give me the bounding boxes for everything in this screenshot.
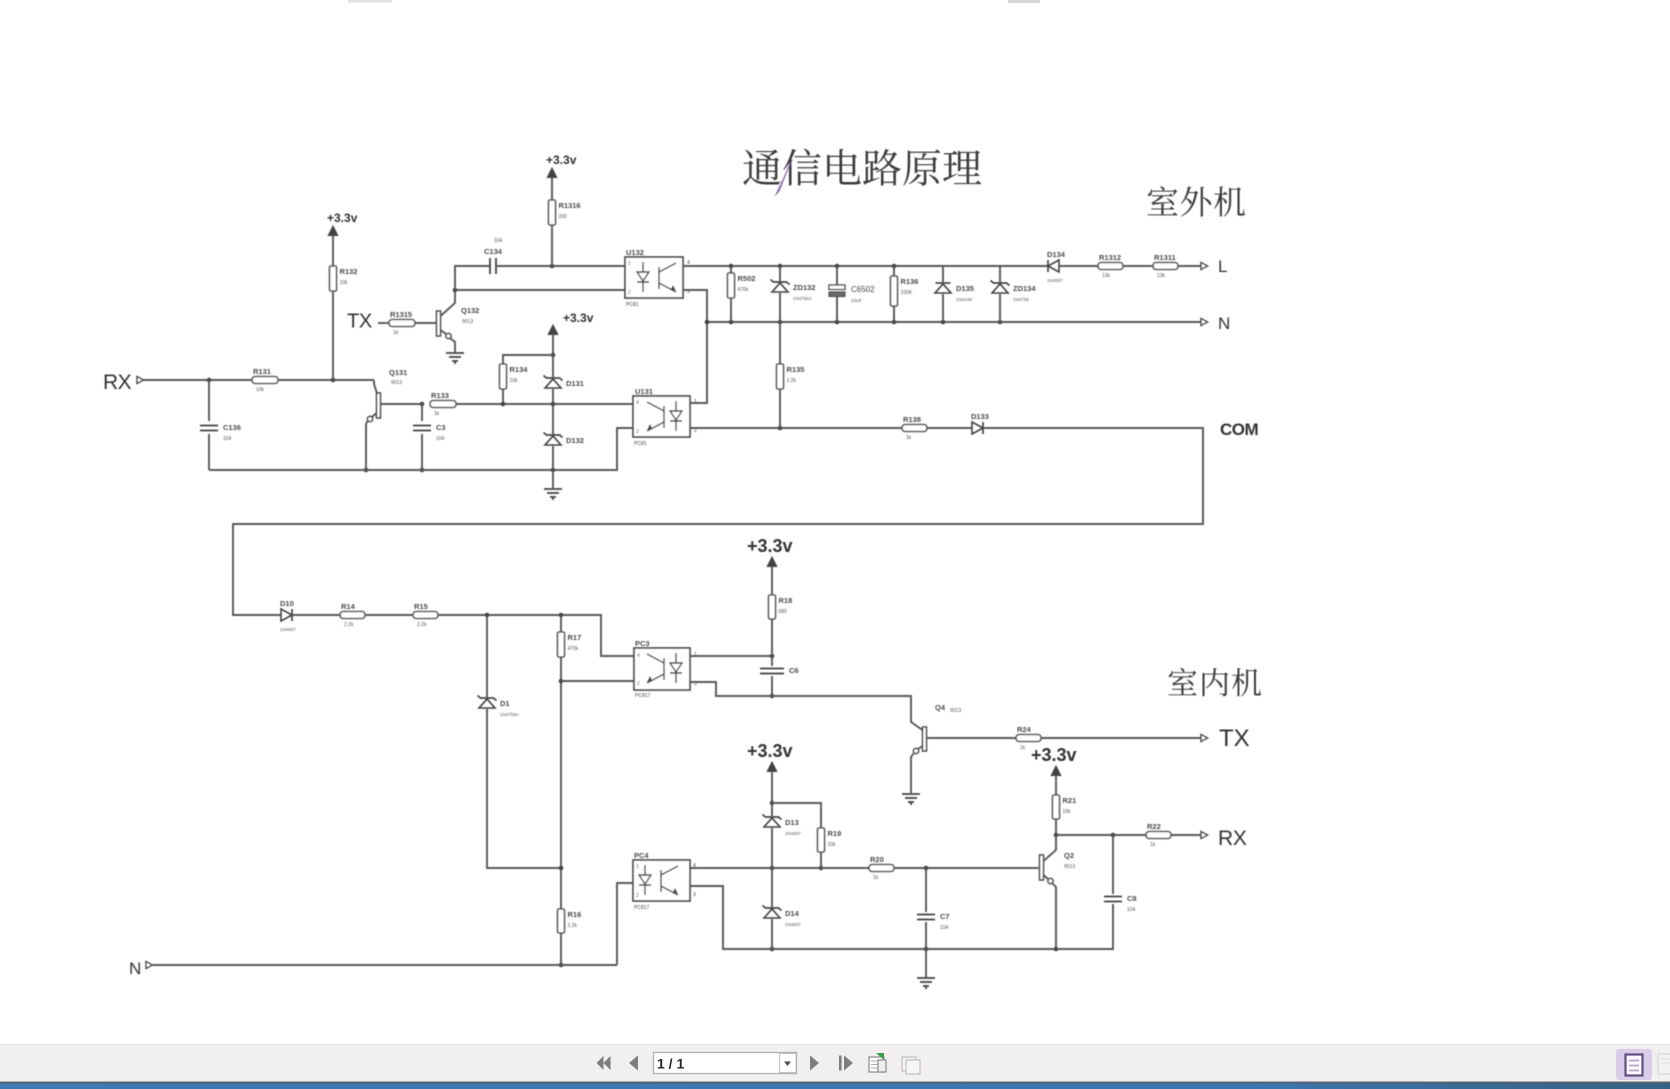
connector RX (137, 377, 144, 384)
svg-text:R17: R17 (568, 633, 582, 642)
wire bottom rail to U131 pin3 (209, 428, 633, 470)
svg-text:+3.3v: +3.3v (747, 536, 793, 556)
svg-text:D14: D14 (785, 909, 800, 918)
wire +3.3v to R18 (771, 566, 773, 595)
wire C136 to bottom rail (208, 434, 210, 470)
svg-text:1k: 1k (1150, 842, 1156, 848)
wire D131 down (552, 389, 554, 404)
connector RX (indoor) (1201, 832, 1208, 839)
resistor R22 (1146, 822, 1171, 848)
wire PC3 pin1 to C6 (690, 655, 772, 657)
wire R1316 down (551, 225, 553, 266)
node N bus x=780 (778, 320, 783, 325)
resistor R24 (1016, 725, 1041, 751)
svg-text:N: N (1218, 314, 1230, 333)
node L bus x=837 (835, 264, 840, 269)
ground (Q132) (446, 353, 464, 364)
svg-text:4: 4 (636, 400, 639, 406)
svg-text:Q131: Q131 (389, 368, 407, 377)
svg-text:1N4007: 1N4007 (1047, 278, 1063, 283)
svg-text:104: 104 (436, 436, 445, 442)
node N bus x=943 (941, 320, 946, 325)
secondary layout button (1658, 1054, 1670, 1074)
node N bus x=1000 (998, 320, 1003, 325)
svg-text:RX: RX (103, 371, 132, 394)
wire L bus (683, 265, 1048, 267)
svg-text:C3: C3 (436, 423, 446, 432)
wire R135 to COM line (779, 389, 781, 428)
resistor R133 (430, 391, 456, 417)
connector N (outdoor) (1201, 319, 1208, 326)
svg-text:1 / 1: 1 / 1 (657, 1056, 684, 1072)
node C3/bottom rail (420, 468, 425, 473)
wire R19 down (820, 852, 822, 868)
svg-text:2: 2 (637, 681, 640, 687)
node C7 top (924, 866, 929, 871)
zener diode ZD134 (991, 281, 1037, 303)
node R133/C3 (420, 402, 425, 407)
node D13/R19 (770, 801, 775, 806)
wire U132 pin3 / U131 pin1 (683, 290, 707, 403)
svg-text:2.2k: 2.2k (344, 622, 354, 628)
svg-text:2: 2 (628, 290, 631, 296)
capacitor C136 (200, 423, 241, 442)
svg-text:R131: R131 (253, 367, 271, 376)
svg-text:R1312: R1312 (1099, 253, 1121, 262)
power +3.3v (R1316) (546, 153, 577, 178)
svg-text:3: 3 (636, 429, 639, 435)
node R18/C6 (770, 654, 775, 659)
wire N bus to R135 (779, 322, 781, 364)
node R16 top (559, 866, 564, 871)
svg-text:1N4007: 1N4007 (785, 922, 801, 927)
svg-text:2.2k: 2.2k (568, 923, 578, 929)
toolbar snapshot icon (869, 1053, 886, 1072)
svg-text:13k: 13k (1102, 273, 1111, 279)
wire D13 down (771, 828, 773, 868)
wire PC4 pin2 elbow (617, 883, 633, 965)
resistor R132 (330, 266, 358, 291)
resistor R20 (869, 855, 894, 881)
node R21/RX line (1054, 833, 1059, 838)
wire to C136 (208, 380, 210, 421)
wire to D135 (942, 266, 944, 282)
resistor R136 (891, 276, 919, 306)
wire D14 down (771, 919, 773, 949)
Q132 emitter diagonal (441, 330, 447, 334)
svg-text:TX: TX (347, 311, 372, 333)
label label 室内机 (1168, 668, 1261, 697)
svg-text:C134: C134 (484, 247, 503, 256)
wire R16 to N line (560, 933, 562, 965)
wire RX to R131 (144, 379, 253, 381)
svg-text:PC817: PC817 (635, 693, 651, 699)
resistor R15 (413, 602, 438, 628)
wire Q131 emitter to bottom rail (366, 421, 368, 470)
wire +3.3v down (771, 771, 773, 803)
svg-text:C8: C8 (1127, 894, 1137, 903)
power +3.3v (R132) (327, 211, 358, 236)
svg-text:PC81: PC81 (626, 302, 639, 308)
wire R134 to R133 line (502, 389, 504, 404)
node L bus x=780 (778, 264, 783, 269)
wire PC4 pin4 line (690, 867, 869, 869)
resistor R17 (558, 632, 582, 657)
svg-text:C7: C7 (940, 912, 950, 921)
wire R22 to RX connector (1171, 834, 1201, 836)
ground (C7) (917, 978, 935, 989)
toolbar prev-page button (629, 1056, 638, 1071)
svg-text:R19: R19 (828, 829, 842, 838)
svg-text:104: 104 (1127, 907, 1136, 913)
wire +3.3v to R1316 (551, 177, 553, 200)
wire to D14 (771, 868, 773, 907)
transistor Q4 (923, 727, 927, 751)
node RX/C136 (207, 378, 212, 383)
svg-text:+3.3v: +3.3v (1031, 745, 1077, 765)
svg-text:1N4756: 1N4756 (1013, 297, 1029, 302)
svg-text:9013: 9013 (462, 319, 473, 325)
svg-text:2.2k: 2.2k (417, 622, 427, 628)
ground (RX stage) (544, 489, 562, 500)
svg-text:2.2k: 2.2k (787, 378, 797, 384)
svg-text:R14: R14 (341, 602, 356, 611)
node R135/COM line (778, 426, 783, 431)
wire N bus (707, 321, 1201, 323)
resistor R21 (1053, 795, 1077, 819)
zener diode D132 (544, 433, 584, 446)
node Q132 collector (453, 288, 458, 293)
Q132 collector wire (441, 290, 456, 316)
wire into Q131 base (374, 380, 378, 395)
svg-text:13k: 13k (1157, 273, 1166, 279)
wire R1312 to R1311 (1123, 265, 1153, 267)
wire Q4 emitter to ground (911, 754, 914, 794)
optocoupler PC4 (633, 851, 696, 911)
svg-text:200: 200 (559, 214, 568, 220)
svg-text:3: 3 (693, 892, 696, 898)
svg-text:2: 2 (636, 893, 639, 899)
wire R138 to D133 (927, 427, 972, 429)
wire to C3 (421, 404, 423, 421)
wire +3.3v to R132 (332, 235, 334, 266)
toolbar first-page button (597, 1056, 611, 1070)
wire to ground (552, 470, 554, 488)
wire PC4 pin3 / bottom line (690, 886, 1056, 949)
node R17 top (559, 613, 564, 618)
wire ZD134 to N bus (999, 294, 1001, 322)
svg-text:10k: 10k (1063, 809, 1072, 815)
ground (Q4) (902, 794, 920, 805)
svg-text:1: 1 (636, 864, 639, 870)
node N bus x=894 (892, 320, 897, 325)
svg-text:N: N (129, 959, 141, 978)
wire to R19 (772, 803, 821, 828)
label title 通信电路原理 (743, 149, 981, 186)
svg-text:R136: R136 (901, 277, 919, 286)
svg-text:104: 104 (494, 238, 503, 244)
svg-text:C6502: C6502 (851, 285, 875, 294)
wire R17 to lower junction (560, 657, 562, 868)
node D14/bottom line (770, 947, 775, 952)
node D132/bottom rail (551, 468, 556, 473)
svg-text:104: 104 (223, 436, 232, 442)
wire R21 down (1055, 819, 1057, 835)
wire R20 to Q2 base (894, 867, 1039, 869)
wire R1311 to L connector (1178, 265, 1201, 267)
wire to R134 (503, 355, 553, 364)
wire to PC3 pin2 (561, 680, 634, 682)
optocoupler U131 (633, 387, 697, 447)
svg-text:1N4756A: 1N4756A (500, 712, 519, 717)
transistor Q131 (377, 393, 381, 418)
wire U131 pin2 / COM line (690, 427, 902, 429)
wire D134 to R1312 (1059, 265, 1098, 267)
toolbar page box (654, 1053, 797, 1074)
node N bus x=837 (835, 320, 840, 325)
node D131/R133 line (551, 402, 556, 407)
node N bus x=731 (729, 320, 734, 325)
svg-text:1N4007: 1N4007 (280, 627, 296, 632)
svg-text:ZD132: ZD132 (793, 283, 816, 292)
svg-text:+3.3v: +3.3v (327, 211, 358, 225)
svg-text:R1316: R1316 (559, 201, 581, 210)
optocoupler U132 (625, 248, 690, 308)
node R132/RX line (331, 378, 336, 383)
wire Q2 emitter down (1053, 884, 1057, 950)
gray dash top (1008, 0, 1040, 3)
resistor R1312 (1098, 253, 1123, 279)
capacitor C7 (917, 912, 950, 931)
svg-text:D132: D132 (566, 436, 584, 445)
node R1316/C134 line (550, 264, 555, 269)
wire R24 to TX (1041, 737, 1201, 739)
capacitor C8 (1104, 894, 1137, 913)
svg-text:PC4: PC4 (634, 851, 649, 860)
wire to ZD134 (999, 266, 1001, 282)
resistor R1315 (389, 310, 415, 336)
svg-text:D13: D13 (785, 818, 799, 827)
svg-text:R502: R502 (738, 274, 756, 283)
svg-text:10k: 10k (510, 378, 519, 384)
svg-text:L: L (1218, 257, 1227, 276)
svg-text:1k: 1k (873, 875, 879, 881)
connector TX (indoor) (1201, 735, 1208, 742)
svg-text:1N4756A: 1N4756A (793, 296, 812, 301)
svg-text:+3.3v: +3.3v (747, 741, 793, 761)
wire R14 to R15 (365, 614, 413, 616)
svg-text:9013: 9013 (391, 380, 402, 386)
svg-text:Q132: Q132 (461, 306, 479, 315)
svg-text:PC817: PC817 (634, 905, 650, 911)
node R16/N line (559, 963, 564, 968)
diode D135 (935, 283, 974, 302)
wire to R16 (560, 868, 562, 909)
node L bus x=894 (892, 264, 897, 269)
wire to C6502 (836, 266, 838, 285)
power +3.3v (R18) (747, 536, 793, 567)
node D1 top (485, 613, 490, 618)
node emitter/bottom rail (364, 468, 369, 473)
svg-text:4: 4 (693, 863, 696, 869)
toolbar clipboard icon (902, 1057, 920, 1074)
wire R136 to N bus (893, 306, 895, 322)
node R134/D131 (551, 353, 556, 358)
wire C6502 to N bus (836, 297, 838, 323)
node R19/main line (819, 866, 824, 871)
node C8 top (1111, 833, 1116, 838)
wire +3.3v to R21 (1055, 775, 1057, 795)
connector N (indoor) (146, 962, 153, 969)
wire to C7 (925, 868, 927, 912)
diode D10 (280, 599, 296, 632)
wire Q131 collector to R133 (381, 403, 423, 405)
wire D132 to bottom rail (552, 446, 554, 470)
svg-text:D135: D135 (956, 284, 974, 293)
resistor R14 (340, 602, 365, 628)
svg-text:PC3: PC3 (635, 639, 650, 648)
svg-text:470k: 470k (738, 287, 749, 293)
optocoupler PC3 (634, 639, 697, 699)
svg-text:1k: 1k (434, 411, 440, 417)
svg-text:1k: 1k (1020, 745, 1026, 751)
svg-text:PC81: PC81 (634, 441, 647, 447)
resistor R1316 (549, 200, 581, 225)
svg-text:R15: R15 (414, 602, 428, 611)
wire N line (153, 964, 618, 966)
power +3.3v (D131) (548, 311, 593, 335)
wire to R136 (893, 266, 895, 276)
wire node to C6 (771, 656, 773, 666)
svg-text:D10: D10 (280, 599, 294, 608)
toolbar next-page button (810, 1056, 819, 1071)
svg-text:R138: R138 (903, 415, 921, 424)
wire PC3 pin3 to Q4 (690, 682, 923, 730)
wire TX to R1315 (378, 322, 389, 324)
Q2 collector wire (1044, 835, 1057, 861)
wire to R17 (560, 615, 562, 632)
svg-text:1N4007: 1N4007 (785, 831, 801, 836)
wire R15 to PC3 pin4 (438, 615, 634, 656)
toolbar background (0, 1044, 1670, 1081)
svg-text:ZD134: ZD134 (1013, 284, 1036, 293)
wire C8 to bottom line (1056, 904, 1113, 949)
svg-text:COM: COM (1220, 420, 1259, 439)
svg-text:Q4: Q4 (935, 703, 946, 712)
svg-text:9013: 9013 (950, 708, 961, 714)
Q4 emitter diagonal (918, 746, 923, 749)
svg-text:D133: D133 (971, 412, 989, 421)
wire RX line (1056, 834, 1146, 836)
wire to D13 (771, 803, 773, 816)
svg-text:R1311: R1311 (1154, 253, 1176, 262)
zener diode ZD132 (771, 280, 816, 302)
svg-text:1: 1 (694, 399, 697, 405)
svg-text:D134: D134 (1047, 250, 1066, 259)
wire to D1 (486, 615, 488, 697)
sidebar layout button (active) (1616, 1049, 1652, 1080)
wire C3 to bottom rail (421, 434, 423, 470)
svg-text:C136: C136 (223, 423, 241, 432)
gray dash top 2 (348, 0, 392, 3)
svg-text:R22: R22 (1147, 822, 1161, 831)
svg-text:104: 104 (940, 925, 949, 931)
svg-text:R18: R18 (779, 596, 793, 605)
resistor R138 (902, 415, 927, 441)
node C6/Q4 line (770, 694, 775, 699)
resistor R18 (769, 595, 793, 619)
node D13/main line (770, 866, 775, 871)
capacitor C6 (760, 666, 799, 675)
svg-text:680: 680 (779, 609, 788, 615)
bottom blue strip (0, 1082, 1670, 1084)
transistor Q2 (1040, 855, 1044, 880)
wire to D132 (552, 404, 554, 434)
node R17/PC3 pin2 (559, 679, 564, 684)
svg-text:100K: 100K (901, 290, 913, 296)
svg-text:Q2: Q2 (1064, 851, 1074, 860)
zener diode D1 (478, 696, 519, 718)
svg-text:470k: 470k (568, 646, 579, 652)
svg-text:1k: 1k (906, 435, 912, 441)
svg-text:+3.3v: +3.3v (563, 311, 594, 325)
zener diode D131 (544, 376, 584, 389)
transistor Q132 (437, 311, 441, 336)
wire ZD132 to N bus (779, 293, 781, 322)
svg-text:R16: R16 (568, 910, 582, 919)
node R134/R133 line (501, 402, 506, 407)
wire Q132 emitter to ground (451, 339, 456, 353)
wire C134 to U132 pin1 (497, 265, 625, 267)
wire R1315 to Q132 base (415, 322, 437, 324)
resistor R19 (818, 828, 842, 852)
svg-text:10k: 10k (256, 387, 265, 393)
wire to D131 (552, 355, 554, 377)
wire R132 to RX line (332, 291, 334, 380)
node Q2 emitter/bottom line (1054, 947, 1059, 952)
svg-text:R133: R133 (431, 391, 449, 400)
power +3.3v (R21) (1031, 745, 1077, 776)
node pin3 vertical/N bus (705, 320, 710, 325)
wire to ZD132 (779, 266, 781, 281)
wire Q4 base to R24 (927, 737, 1017, 739)
wire L bus to R502 (730, 266, 732, 273)
wire C7 down to ground (925, 922, 927, 977)
svg-text:R132: R132 (340, 267, 358, 276)
wire C6 down (771, 676, 773, 696)
svg-text:1: 1 (694, 652, 697, 658)
node L bus x=731 (729, 264, 734, 269)
wire D10 to R14 (292, 614, 340, 616)
wire to U132 pin2 (455, 289, 625, 291)
zener diode D14 (763, 906, 802, 928)
resistor R16 (558, 909, 582, 933)
svg-text:10k: 10k (340, 280, 349, 286)
svg-text:RX: RX (1218, 827, 1247, 850)
svg-text:10UF: 10UF (851, 298, 862, 303)
svg-text:D131: D131 (566, 379, 584, 388)
wire D135 to N bus (942, 294, 944, 322)
svg-text:1k: 1k (393, 330, 399, 336)
wire R133 to U131 pin4 (456, 403, 633, 405)
svg-text:R1315: R1315 (390, 310, 412, 319)
wire +3.3v down (552, 334, 554, 355)
svg-text:1N4148: 1N4148 (956, 297, 972, 302)
svg-text:9013: 9013 (1064, 864, 1075, 870)
svg-text:4: 4 (637, 653, 640, 659)
resistor R134 (500, 364, 529, 389)
wire to C8 (1112, 835, 1114, 894)
